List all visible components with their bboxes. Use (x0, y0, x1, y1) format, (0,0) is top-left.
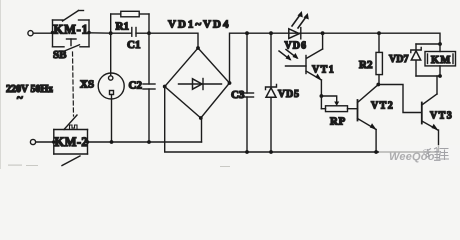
svg-text:KM-1: KM-1 (54, 23, 89, 37)
svg-text:R1: R1 (116, 21, 129, 33)
svg-text:KM: KM (431, 55, 451, 66)
wire (36, 141, 54, 143)
svg-text:C3: C3 (231, 89, 245, 101)
potentiometer RP (320, 94, 358, 112)
node XS bottom (110, 140, 114, 144)
zener diode VD7 (411, 44, 421, 76)
wire (top bus) (416, 43, 440, 45)
svg-text:VD1~VD4: VD1~VD4 (168, 19, 231, 31)
svg-text:VD7: VD7 (389, 54, 408, 65)
wire (33, 32, 52, 34)
wire (neutral run to bridge bottom) (88, 141, 202, 143)
svg-text:C2: C2 (129, 80, 143, 92)
capacitor C1 (series in line) (111, 28, 149, 37)
terminal L (220V live) (28, 31, 33, 36)
svg-text:VT2: VT2 (371, 101, 394, 112)
wire (VT2 collector to VT3 base) (378, 85, 421, 113)
node A (109, 31, 113, 35)
phototransistor VT1 (279, 33, 323, 96)
svg-text:C1: C1 (127, 39, 140, 51)
node B (147, 31, 151, 35)
relay coil KM (425, 44, 456, 76)
svg-text:~: ~ (17, 92, 23, 104)
contactor contact KM-2 (52, 115, 89, 166)
wire (KM-1 to node A) (89, 32, 111, 34)
svg-text:XS: XS (80, 79, 94, 91)
capacitor C3 (241, 33, 254, 154)
node VD5 top (269, 31, 273, 35)
transistor VT2 (358, 85, 379, 154)
svg-text:RP: RP (330, 116, 346, 128)
terminal N (220V neutral) (30, 139, 35, 144)
pushbutton SB (53, 39, 90, 52)
svg-text:220V 50Hz: 220V 50Hz (6, 84, 53, 95)
socket XS (98, 33, 124, 142)
wire (bridge bottom vertex to neutral) (201, 118, 203, 142)
bridge rectifier VD1~VD4 (163, 46, 232, 120)
node C3 top (245, 31, 249, 35)
svg-text:R2: R2 (359, 59, 373, 71)
node VD7/KM top (438, 42, 442, 46)
scan speckles (8, 165, 230, 168)
node VT1 collector (321, 31, 325, 35)
node C2 bottom (147, 140, 151, 144)
wire (node B to bridge top) (149, 33, 198, 48)
svg-text:VD6: VD6 (285, 41, 307, 52)
transistor VT3 (422, 76, 439, 152)
zener diode VD5 (266, 33, 277, 154)
resistor R2 (376, 31, 382, 86)
scan edge (0, 0, 1, 169)
svg-text:VD5: VD5 (278, 89, 300, 100)
wire (bridge left vertex down to DC- rail) (165, 87, 439, 153)
LED VD6 (in DC+ rail) (289, 11, 309, 39)
resistor R1 (111, 11, 149, 33)
svg-text:KM-2: KM-2 (55, 135, 89, 149)
watermark (379, 145, 460, 166)
svg-text:VT3: VT3 (430, 111, 453, 122)
svg-text:VT1: VT1 (312, 65, 335, 76)
wire (bottom bus) (416, 75, 440, 77)
contactor contact KM-1 (51, 11, 91, 47)
svg-text:SB: SB (53, 49, 67, 61)
capacitor C2 (shunt) (143, 33, 155, 142)
wire (bridge right vertex up to DC+ rail) (230, 33, 441, 83)
mechanical link (dashed) (73, 52, 74, 116)
